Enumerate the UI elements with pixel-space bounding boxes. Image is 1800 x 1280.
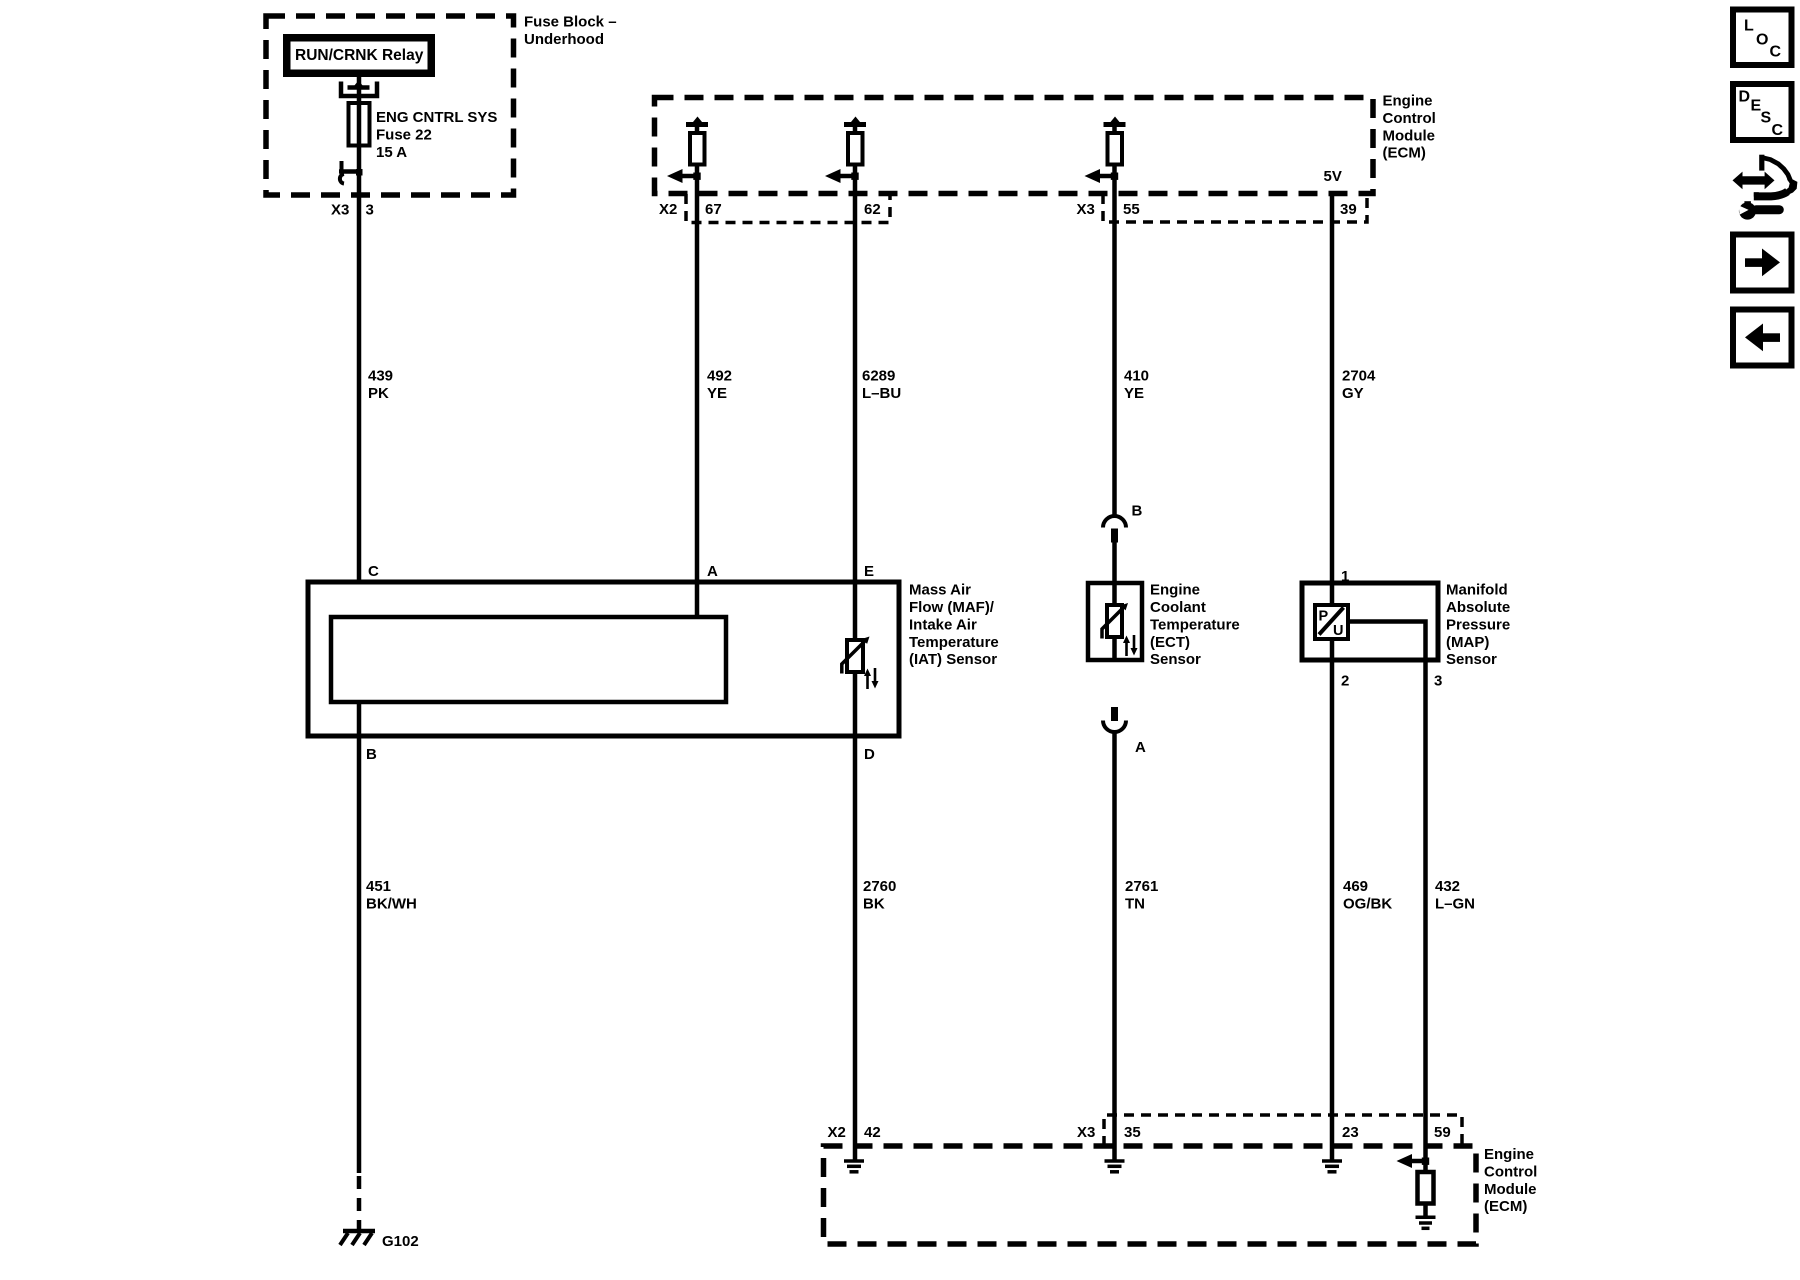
- svg-text:Temperature: Temperature: [1150, 616, 1240, 633]
- svg-text:Control: Control: [1383, 110, 1436, 127]
- fuse F22 holder bracket: [341, 82, 377, 97]
- ECM driver symbol pin 55: [1085, 117, 1126, 223]
- wire pin 2: [1330, 639, 1335, 660]
- svg-text:RUN/CRNK Relay: RUN/CRNK Relay: [295, 47, 424, 64]
- ECM X3 connector dashed pocket: [1103, 194, 1367, 222]
- svg-text:35: 35: [1124, 1124, 1141, 1141]
- svg-text:Absolute: Absolute: [1446, 599, 1510, 616]
- svg-text:(ECM): (ECM): [1484, 1198, 1527, 1215]
- ECM driver symbol pin 67: [667, 117, 708, 224]
- icon arrow left box: [1733, 310, 1792, 366]
- wire thermistor to ECT box bottom: [1112, 637, 1117, 660]
- svg-text:39: 39: [1340, 201, 1357, 218]
- svg-text:B: B: [1132, 503, 1143, 520]
- svg-text:E: E: [864, 563, 874, 580]
- svg-text:5V: 5V: [1324, 168, 1342, 185]
- svg-text:BK/WH: BK/WH: [366, 895, 417, 912]
- wire E to D through thermistor: [853, 672, 858, 736]
- svg-text:ENG CNTRL SYS: ENG CNTRL SYS: [376, 109, 497, 126]
- ground symbol pin 35: [1105, 1161, 1125, 1172]
- icon LOC box: [1733, 10, 1792, 66]
- svg-text:D: D: [864, 746, 875, 763]
- svg-text:Fuse Block –: Fuse Block –: [524, 13, 617, 30]
- svg-text:G102: G102: [382, 1233, 419, 1250]
- ground symbol pin 42: [844, 1161, 864, 1172]
- wire 2760 BK: [853, 736, 858, 1160]
- svg-text:OG/BK: OG/BK: [1343, 895, 1392, 912]
- svg-text:X2: X2: [828, 1124, 846, 1141]
- svg-text:55: 55: [1123, 201, 1140, 218]
- wire 439 PK / 451 BK-WH vertical run: [357, 77, 362, 582]
- wire 469 OG/BK: [1330, 660, 1335, 1160]
- ECM driver symbol pin 62: [825, 117, 866, 224]
- svg-text:S: S: [1761, 110, 1772, 127]
- svg-text:U: U: [1333, 623, 1343, 639]
- svg-text:L–GN: L–GN: [1435, 895, 1475, 912]
- svg-text:TN: TN: [1125, 895, 1145, 912]
- svg-text:Engine: Engine: [1484, 1146, 1534, 1163]
- MAF/IAT sensor inner box: [331, 617, 726, 702]
- wire 410 YE: [1112, 222, 1117, 516]
- svg-text:15 A: 15 A: [376, 144, 407, 161]
- relay RUN/CRNK: [283, 34, 435, 77]
- svg-text:YE: YE: [707, 385, 727, 402]
- svg-text:C: C: [368, 563, 379, 580]
- svg-text:L: L: [1744, 18, 1754, 35]
- icon vehicle with arrows and wrench: [1733, 155, 1798, 220]
- svg-text:L–BU: L–BU: [862, 385, 901, 402]
- svg-text:62: 62: [864, 201, 881, 218]
- wire 492 YE: [695, 223, 700, 617]
- svg-text:A: A: [707, 563, 718, 580]
- svg-text:2760: 2760: [863, 878, 896, 895]
- svg-text:Underhood: Underhood: [524, 31, 604, 48]
- svg-text:439: 439: [368, 367, 393, 384]
- ECT sensor box: [1088, 583, 1142, 660]
- svg-text:67: 67: [705, 201, 722, 218]
- svg-text:GY: GY: [1342, 385, 1364, 402]
- svg-text:2761: 2761: [1125, 878, 1158, 895]
- svg-text:23: 23: [1342, 1124, 1359, 1141]
- ECT connector B: [1103, 516, 1126, 528]
- svg-text:451: 451: [366, 878, 391, 895]
- svg-text:Flow (MAF)/: Flow (MAF)/: [909, 599, 995, 616]
- svg-text:D: D: [1739, 89, 1751, 106]
- svg-text:(MAP): (MAP): [1446, 634, 1489, 651]
- icon DESC box: [1733, 84, 1792, 140]
- svg-text:Module: Module: [1484, 1181, 1537, 1198]
- svg-text:X3: X3: [1077, 1124, 1095, 1141]
- svg-text:B: B: [366, 746, 377, 763]
- fuse terminal T-bar: [348, 85, 370, 90]
- svg-text:3: 3: [1434, 673, 1442, 690]
- ECM bottom dashed box: [824, 1146, 1477, 1244]
- wire P/U to pin 3: [1348, 622, 1426, 661]
- svg-text:X2: X2: [659, 201, 677, 218]
- svg-text:(IAT) Sensor: (IAT) Sensor: [909, 651, 997, 668]
- svg-text:410: 410: [1124, 367, 1149, 384]
- ECM bottom X3 connector dashed pocket: [1104, 1115, 1462, 1146]
- svg-text:42: 42: [864, 1124, 881, 1141]
- svg-text:P: P: [1319, 609, 1329, 625]
- fuse block underhood dashed box: [266, 16, 514, 195]
- svg-text:(ECT): (ECT): [1150, 634, 1190, 651]
- in-line connector under fuse: [339, 169, 359, 174]
- svg-text:X3: X3: [1077, 201, 1095, 218]
- svg-text:Fuse 22: Fuse 22: [376, 126, 432, 143]
- wire 2761 TN (ECT A to X3-35): [1112, 733, 1117, 1160]
- svg-text:469: 469: [1343, 878, 1368, 895]
- IAT thermistor: [842, 637, 879, 690]
- svg-text:PK: PK: [368, 385, 389, 402]
- svg-text:X3: X3: [331, 202, 349, 219]
- svg-text:Manifold: Manifold: [1446, 582, 1508, 599]
- wire 2704 GY: [1330, 194, 1335, 606]
- svg-text:Engine: Engine: [1383, 93, 1433, 110]
- ECM X2 connector dashed pocket: [686, 194, 890, 223]
- svg-text:432: 432: [1435, 878, 1460, 895]
- svg-text:2704: 2704: [1342, 367, 1376, 384]
- ECT connector A: [1111, 707, 1118, 721]
- svg-text:Pressure: Pressure: [1446, 616, 1510, 633]
- svg-text:Control: Control: [1484, 1163, 1537, 1180]
- svg-text:492: 492: [707, 367, 732, 384]
- svg-text:1: 1: [1341, 568, 1349, 585]
- svg-text:C: C: [1770, 44, 1782, 61]
- svg-text:A: A: [1135, 739, 1146, 756]
- G102 chassis ground: [340, 1231, 375, 1245]
- svg-text:6289: 6289: [862, 367, 895, 384]
- svg-text:Sensor: Sensor: [1446, 651, 1497, 668]
- svg-text:BK: BK: [863, 895, 885, 912]
- ECT thermistor: [1102, 603, 1138, 656]
- MAP sensor box: [1302, 583, 1438, 660]
- svg-text:Sensor: Sensor: [1150, 651, 1201, 668]
- pin 59 internal: junction, arrow, resistor, ground: [1397, 1154, 1436, 1228]
- svg-text:O: O: [1756, 32, 1768, 49]
- svg-text:(ECM): (ECM): [1383, 145, 1426, 162]
- wire 6289 L-BU: [853, 223, 858, 640]
- ground symbol pin 23: [1322, 1161, 1342, 1172]
- svg-text:Intake Air: Intake Air: [909, 616, 977, 633]
- svg-text:Temperature: Temperature: [909, 634, 999, 651]
- P/U pressure transducer symbol: [1315, 605, 1348, 639]
- svg-text:Coolant: Coolant: [1150, 599, 1206, 616]
- svg-text:Mass Air: Mass Air: [909, 582, 971, 599]
- svg-text:Engine: Engine: [1150, 582, 1200, 599]
- svg-text:59: 59: [1434, 1124, 1451, 1141]
- svg-text:3: 3: [366, 202, 374, 219]
- svg-text:YE: YE: [1124, 385, 1144, 402]
- wire 451 dashed segment to G102: [357, 1176, 362, 1231]
- ECM top dashed box: [655, 98, 1374, 194]
- svg-text:2: 2: [1341, 673, 1349, 690]
- svg-text:C: C: [1772, 122, 1784, 139]
- icon arrow right box: [1733, 235, 1792, 291]
- wire 451 BK/WH lower solid segment: [357, 702, 362, 1173]
- wire B to ECT box: [1112, 542, 1117, 605]
- fuse ENG CNTRL SYS body: [349, 103, 370, 146]
- wire 432 L-GN: [1423, 660, 1428, 1160]
- MAF/IAT sensor outer box: [308, 582, 899, 736]
- svg-text:Module: Module: [1383, 127, 1436, 144]
